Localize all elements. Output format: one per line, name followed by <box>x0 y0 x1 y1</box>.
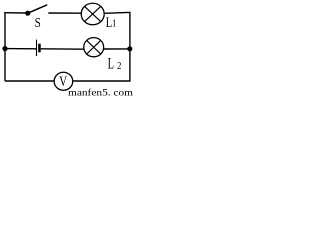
wire left vertical <box>4 12 6 81</box>
wire switch to L1 <box>48 12 81 14</box>
svg-text:1: 1 <box>112 18 117 29</box>
svg-text:S: S <box>35 15 41 30</box>
wire voltmeter to bottom-right corner <box>73 80 130 82</box>
lamp L2 <box>84 38 122 73</box>
node right junction <box>127 46 132 51</box>
node left junction <box>2 46 7 51</box>
switch S <box>25 5 47 30</box>
voltmeter V <box>54 72 73 90</box>
wire middle-left segment <box>5 48 36 50</box>
wire right vertical <box>129 12 131 81</box>
wire top-left segment <box>4 12 26 14</box>
battery <box>37 40 41 56</box>
svg-text:2: 2 <box>117 61 121 72</box>
svg-text:V: V <box>59 74 67 90</box>
svg-text:manfen5. com: manfen5. com <box>68 88 133 98</box>
wire L1 to top-right corner <box>105 11 131 14</box>
wire bottom-left segment <box>5 80 54 82</box>
wire L2 to right junction <box>104 48 130 50</box>
svg-text:L: L <box>108 55 114 73</box>
wire battery to L2 <box>41 48 84 50</box>
lamp L1 <box>81 3 116 31</box>
